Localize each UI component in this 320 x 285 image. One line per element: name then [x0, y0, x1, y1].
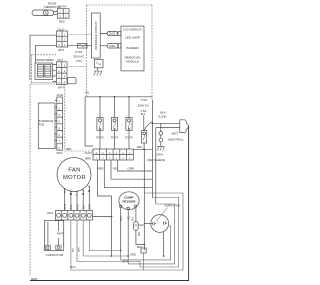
svg-text:WHT: WHT — [58, 85, 64, 89]
power plug P1 — [175, 120, 188, 133]
svg-text:(LIVE): (LIVE) — [159, 114, 167, 118]
wire — [30, 35, 57, 80]
connector block to display — [118, 44, 121, 48]
wire — [133, 143, 152, 149]
svg-text:3: 3 — [64, 76, 66, 79]
svg-text:RED: RED — [98, 166, 104, 170]
node junction — [114, 96, 116, 98]
relay RY72 — [97, 118, 103, 131]
svg-text:BLK: BLK — [71, 265, 76, 269]
svg-text:▲: ▲ — [102, 151, 104, 154]
svg-text:RED: RED — [59, 19, 65, 23]
svg-text:PCB: PCB — [39, 122, 45, 126]
svg-text:OLP: OLP — [139, 224, 144, 227]
node junction — [152, 122, 154, 124]
svg-text:1: 1 — [64, 33, 66, 36]
svg-text:▲: ▲ — [95, 151, 97, 154]
svg-text:2: 2 — [60, 15, 62, 18]
svg-text:RED: RED — [137, 146, 142, 149]
svg-text:▲: ▲ — [122, 151, 124, 154]
svg-text:YEL: YEL — [139, 231, 141, 236]
wire loop top right — [144, 193, 184, 270]
node junction — [143, 244, 145, 246]
wire — [136, 230, 144, 244]
svg-text:TRANSFORMER: TRANSFORMER — [35, 59, 54, 62]
svg-text:FAN: FAN — [68, 168, 80, 174]
overload protector OLP — [134, 222, 139, 231]
wire live line — [152, 100, 154, 198]
svg-text:4: 4 — [59, 120, 61, 124]
svg-text:WHT: WHT — [57, 232, 64, 236]
svg-text:1: 1 — [59, 100, 61, 104]
fuse F702 — [95, 60, 104, 68]
wire — [144, 223, 151, 225]
relay RY73 — [111, 118, 117, 131]
svg-text:BLK: BLK — [70, 205, 73, 210]
svg-text:RESSOR: RESSOR — [122, 200, 136, 204]
svg-text:▲: ▲ — [129, 151, 131, 154]
svg-text:RED: RED — [131, 252, 137, 256]
node label ROOM THERMISTOR — [43, 2, 60, 9]
svg-text:CN-D: CN-D — [57, 93, 64, 97]
svg-text:F701: F701 — [76, 50, 83, 54]
connector block to display — [118, 32, 121, 36]
wire — [55, 101, 57, 148]
svg-text:LCD DISPLAY: LCD DISPLAY — [123, 27, 142, 31]
svg-text:GRN: GRN — [157, 152, 163, 156]
svg-text:1: 1 — [58, 65, 60, 68]
wire WHT neutral label — [168, 132, 183, 142]
wire BLK live label — [159, 111, 167, 119]
svg-text:CN02: CN02 — [109, 44, 116, 48]
wire — [163, 232, 165, 256]
wire outdoor border — [30, 126, 189, 280]
wire — [93, 216, 112, 218]
svg-text:RED: RED — [76, 204, 79, 209]
interface PCB box — [38, 103, 55, 149]
connector jumper — [68, 77, 77, 84]
node junction — [163, 255, 165, 257]
wire — [153, 122, 176, 124]
svg-text:LED LAMP: LED LAMP — [125, 35, 140, 39]
svg-text:2: 2 — [65, 15, 67, 18]
wire — [65, 186, 90, 210]
connector OUT2 terminal strip — [93, 149, 133, 160]
wire — [53, 65, 57, 82]
svg-text:T701: T701 — [141, 98, 148, 102]
svg-text:ROOM: ROOM — [48, 2, 56, 6]
wire — [160, 142, 162, 146]
connector CN-D — [57, 93, 64, 150]
value label T701 250V AC 1.5A — [138, 98, 149, 113]
svg-text:0.5A: 0.5A — [76, 59, 82, 63]
svg-text:INTERFACE: INTERFACE — [39, 119, 54, 123]
svg-text:BRN: BRN — [85, 156, 91, 160]
svg-text:3: 3 — [58, 76, 60, 79]
wire — [36, 45, 57, 63]
wire loop C — [77, 198, 179, 268]
ground chassis — [157, 146, 164, 150]
wire — [85, 97, 93, 146]
capacitor C2 round — [151, 208, 169, 233]
svg-text:3: 3 — [58, 44, 60, 47]
svg-text:BUZZER: BUZZER — [127, 46, 140, 50]
svg-text:CAPACITOR: CAPACITOR — [46, 253, 65, 257]
svg-text:BLK: BLK — [141, 113, 146, 116]
display module box — [121, 26, 144, 71]
svg-text:MOTOR: MOTOR — [63, 175, 86, 181]
svg-text:BLK: BLK — [137, 245, 142, 249]
pin labels F M L H R — [64, 189, 90, 197]
svg-text:RED SLEEVE: RED SLEEVE — [148, 158, 166, 162]
svg-text:RED: RED — [66, 148, 71, 151]
svg-text:2: 2 — [64, 70, 66, 73]
wire loop D — [71, 220, 144, 270]
node junction — [99, 96, 101, 98]
wire loop B — [83, 204, 174, 264]
svg-text:MODULE: MODULE — [126, 59, 139, 63]
wire — [48, 221, 59, 246]
svg-text:250V AC: 250V AC — [73, 54, 84, 58]
thermistor TH1 — [32, 10, 54, 16]
node label wire colors vertical — [64, 204, 92, 210]
svg-text:4: 4 — [64, 81, 66, 84]
wire dashed signal — [68, 33, 92, 35]
connector CN02 — [107, 44, 119, 49]
svg-text:6: 6 — [59, 133, 61, 137]
node label wire colors vertical — [120, 215, 135, 221]
wire neutral — [156, 128, 175, 204]
svg-text:5: 5 — [59, 126, 61, 130]
wire — [121, 208, 136, 257]
main PCB dashed border left — [30, 84, 93, 276]
connector CN-S — [57, 27, 68, 47]
node junction — [120, 250, 122, 252]
wire — [144, 116, 153, 131]
svg-text:BLK: BLK — [131, 216, 134, 221]
svg-text:2: 2 — [64, 39, 66, 42]
wire — [100, 130, 129, 149]
node junction — [143, 148, 145, 150]
capacitor C1 box — [44, 221, 63, 251]
svg-text:CN01: CN01 — [109, 32, 116, 36]
wire — [68, 34, 108, 46]
svg-text:250V AC: 250V AC — [138, 103, 149, 107]
fuse F701 inline — [78, 43, 88, 48]
svg-text:WHT: WHT — [58, 48, 64, 52]
transformer T1 dashed enclosure — [32, 55, 57, 83]
svg-text:▲: ▲ — [115, 151, 117, 154]
svg-text:INTERFACE CIRCUIT: INTERFACE CIRCUIT — [94, 21, 98, 50]
svg-text:7: 7 — [59, 140, 61, 144]
node junction — [111, 255, 113, 257]
svg-text:CN-TH: CN-TH — [58, 5, 66, 9]
svg-text:BLU: BLU — [120, 216, 123, 221]
wire — [85, 96, 152, 98]
wire — [143, 149, 145, 250]
svg-text:WHT: WHT — [47, 211, 54, 215]
relay RY75 — [142, 131, 147, 144]
svg-text:2: 2 — [59, 106, 61, 110]
terminal strip indoor — [56, 211, 93, 221]
svg-text:(NEUTRAL): (NEUTRAL) — [168, 137, 183, 141]
motor compressor M2 — [119, 192, 139, 210]
svg-text:1: 1 — [64, 65, 66, 68]
svg-text:OUT2: OUT2 — [85, 151, 93, 155]
svg-text:2: 2 — [58, 70, 60, 73]
wire — [54, 11, 58, 14]
connector CN01 — [107, 31, 118, 35]
svg-text:GN: GN — [85, 91, 89, 95]
wire — [98, 160, 153, 196]
svg-text:3: 3 — [59, 113, 61, 117]
svg-text:BLU: BLU — [73, 247, 75, 252]
transformer T1 — [35, 59, 54, 80]
svg-text:GRN: GRN — [128, 166, 134, 170]
ground chassis — [94, 71, 102, 76]
svg-text:BRN: BRN — [89, 204, 92, 209]
connector CN-T — [57, 59, 68, 85]
svg-text:WHT: WHT — [57, 151, 63, 155]
connector block outdoor — [141, 248, 146, 253]
node junction — [111, 216, 113, 218]
motor fan M1 — [57, 158, 91, 192]
op-amp interface circuit U1 — [92, 13, 101, 58]
wire — [111, 196, 113, 256]
relay RY76 — [126, 118, 132, 131]
svg-text:BRN: BRN — [79, 247, 81, 252]
wire — [160, 123, 162, 131]
svg-text:2: 2 — [58, 39, 60, 42]
node junction — [127, 255, 129, 257]
svg-text:8: 8 — [59, 146, 61, 150]
svg-text:YEL: YEL — [127, 215, 130, 220]
svg-text:YEL: YEL — [83, 204, 86, 209]
main PCB dashed border top — [68, 5, 152, 100]
svg-text:3: 3 — [64, 44, 66, 47]
svg-text:1: 1 — [58, 33, 60, 36]
svg-text:WHT: WHT — [172, 132, 179, 136]
wire loop A — [89, 220, 170, 260]
svg-text:WHT: WHT — [64, 204, 67, 210]
value label F701 250V AC 0.5A — [73, 50, 84, 63]
svg-text:▲: ▲ — [109, 151, 111, 154]
connector inline — [159, 132, 163, 142]
wire — [97, 68, 99, 71]
connector CN-TH1 — [58, 5, 70, 19]
terminal dots fan — [64, 186, 90, 193]
wire — [100, 97, 129, 118]
